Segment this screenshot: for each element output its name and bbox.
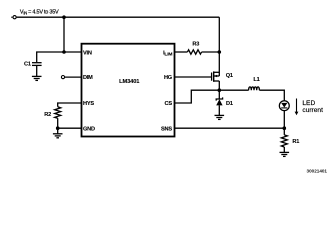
node switch junction [218, 88, 222, 92]
svg-text:GND: GND [83, 126, 95, 132]
wire ILIM to R3 [175, 51, 188, 53]
input terminal tick [11, 16, 12, 18]
wire HG to gate [175, 76, 212, 78]
svg-text:VIN: VIN [83, 50, 92, 56]
svg-text:DIM: DIM [83, 75, 93, 81]
svg-text:VIN = 4.5V to 35V: VIN = 4.5V to 35V [20, 9, 59, 15]
svg-text:CS: CS [165, 101, 173, 107]
wire L1 to LED [259, 90, 284, 101]
wire LED to SNS node [283, 110, 285, 134]
DIM input terminal circle [61, 76, 64, 79]
wire to C1 [37, 52, 64, 62]
diode D1 schottky [216, 90, 222, 115]
svg-text:HYS: HYS [83, 101, 94, 107]
wire CS to switch node [175, 90, 220, 103]
svg-text:D1: D1 [226, 101, 233, 107]
svg-text:LM3401: LM3401 [119, 79, 140, 85]
LED current arrow [295, 99, 299, 116]
input terminal circle [13, 16, 16, 19]
svg-text:ILIM: ILIM [163, 50, 172, 57]
IC U1 LM3401 [82, 44, 175, 137]
svg-text:C1: C1 [24, 61, 31, 67]
wire supply branch down [218, 17, 220, 76]
wire R3 to supply branch [202, 51, 220, 53]
svg-text:R1: R1 [292, 139, 299, 145]
wire top rail [17, 16, 220, 18]
wire to GND pin [58, 127, 82, 129]
svg-text:current: current [302, 107, 323, 114]
svg-text:L1: L1 [253, 77, 259, 83]
svg-text:R3: R3 [192, 42, 199, 48]
wire to VIN pin [64, 51, 82, 53]
svg-text:Q1: Q1 [226, 73, 233, 79]
ground under D1 [215, 115, 225, 119]
node junction R2/GND [56, 126, 60, 130]
resistor R3 [187, 50, 201, 54]
svg-text:SNS: SNS [161, 126, 172, 132]
resistor R1 [281, 135, 287, 147]
wire SNS [175, 127, 285, 129]
transistor Q1 [212, 71, 220, 81]
wire R1 to ground [283, 147, 285, 152]
wire DIM [65, 76, 82, 78]
inductor L1 [249, 87, 260, 90]
svg-text:R2: R2 [44, 112, 51, 118]
resistor R2 [55, 107, 61, 118]
wire Q1 drain down to switch node [218, 81, 220, 90]
ground under C1 [32, 76, 42, 80]
node junction SNS/R1 [283, 126, 287, 130]
wire switch node to L1 [219, 89, 248, 91]
LED [279, 101, 289, 111]
svg-text:30021401: 30021401 [307, 169, 328, 174]
capacitor C1 [32, 63, 42, 66]
wire HYS to R2 [58, 103, 82, 107]
ground under R2 [53, 134, 63, 138]
node junction VIN row [62, 50, 66, 54]
node junction top rail to VIN branch [62, 15, 66, 19]
wire C1 to ground [36, 65, 38, 76]
node junction R3/supply [218, 50, 222, 54]
wire R2 to GND node [57, 118, 59, 134]
ground under R1 [280, 152, 290, 156]
wire VIN branch down [63, 17, 65, 52]
svg-text:HG: HG [164, 75, 172, 81]
